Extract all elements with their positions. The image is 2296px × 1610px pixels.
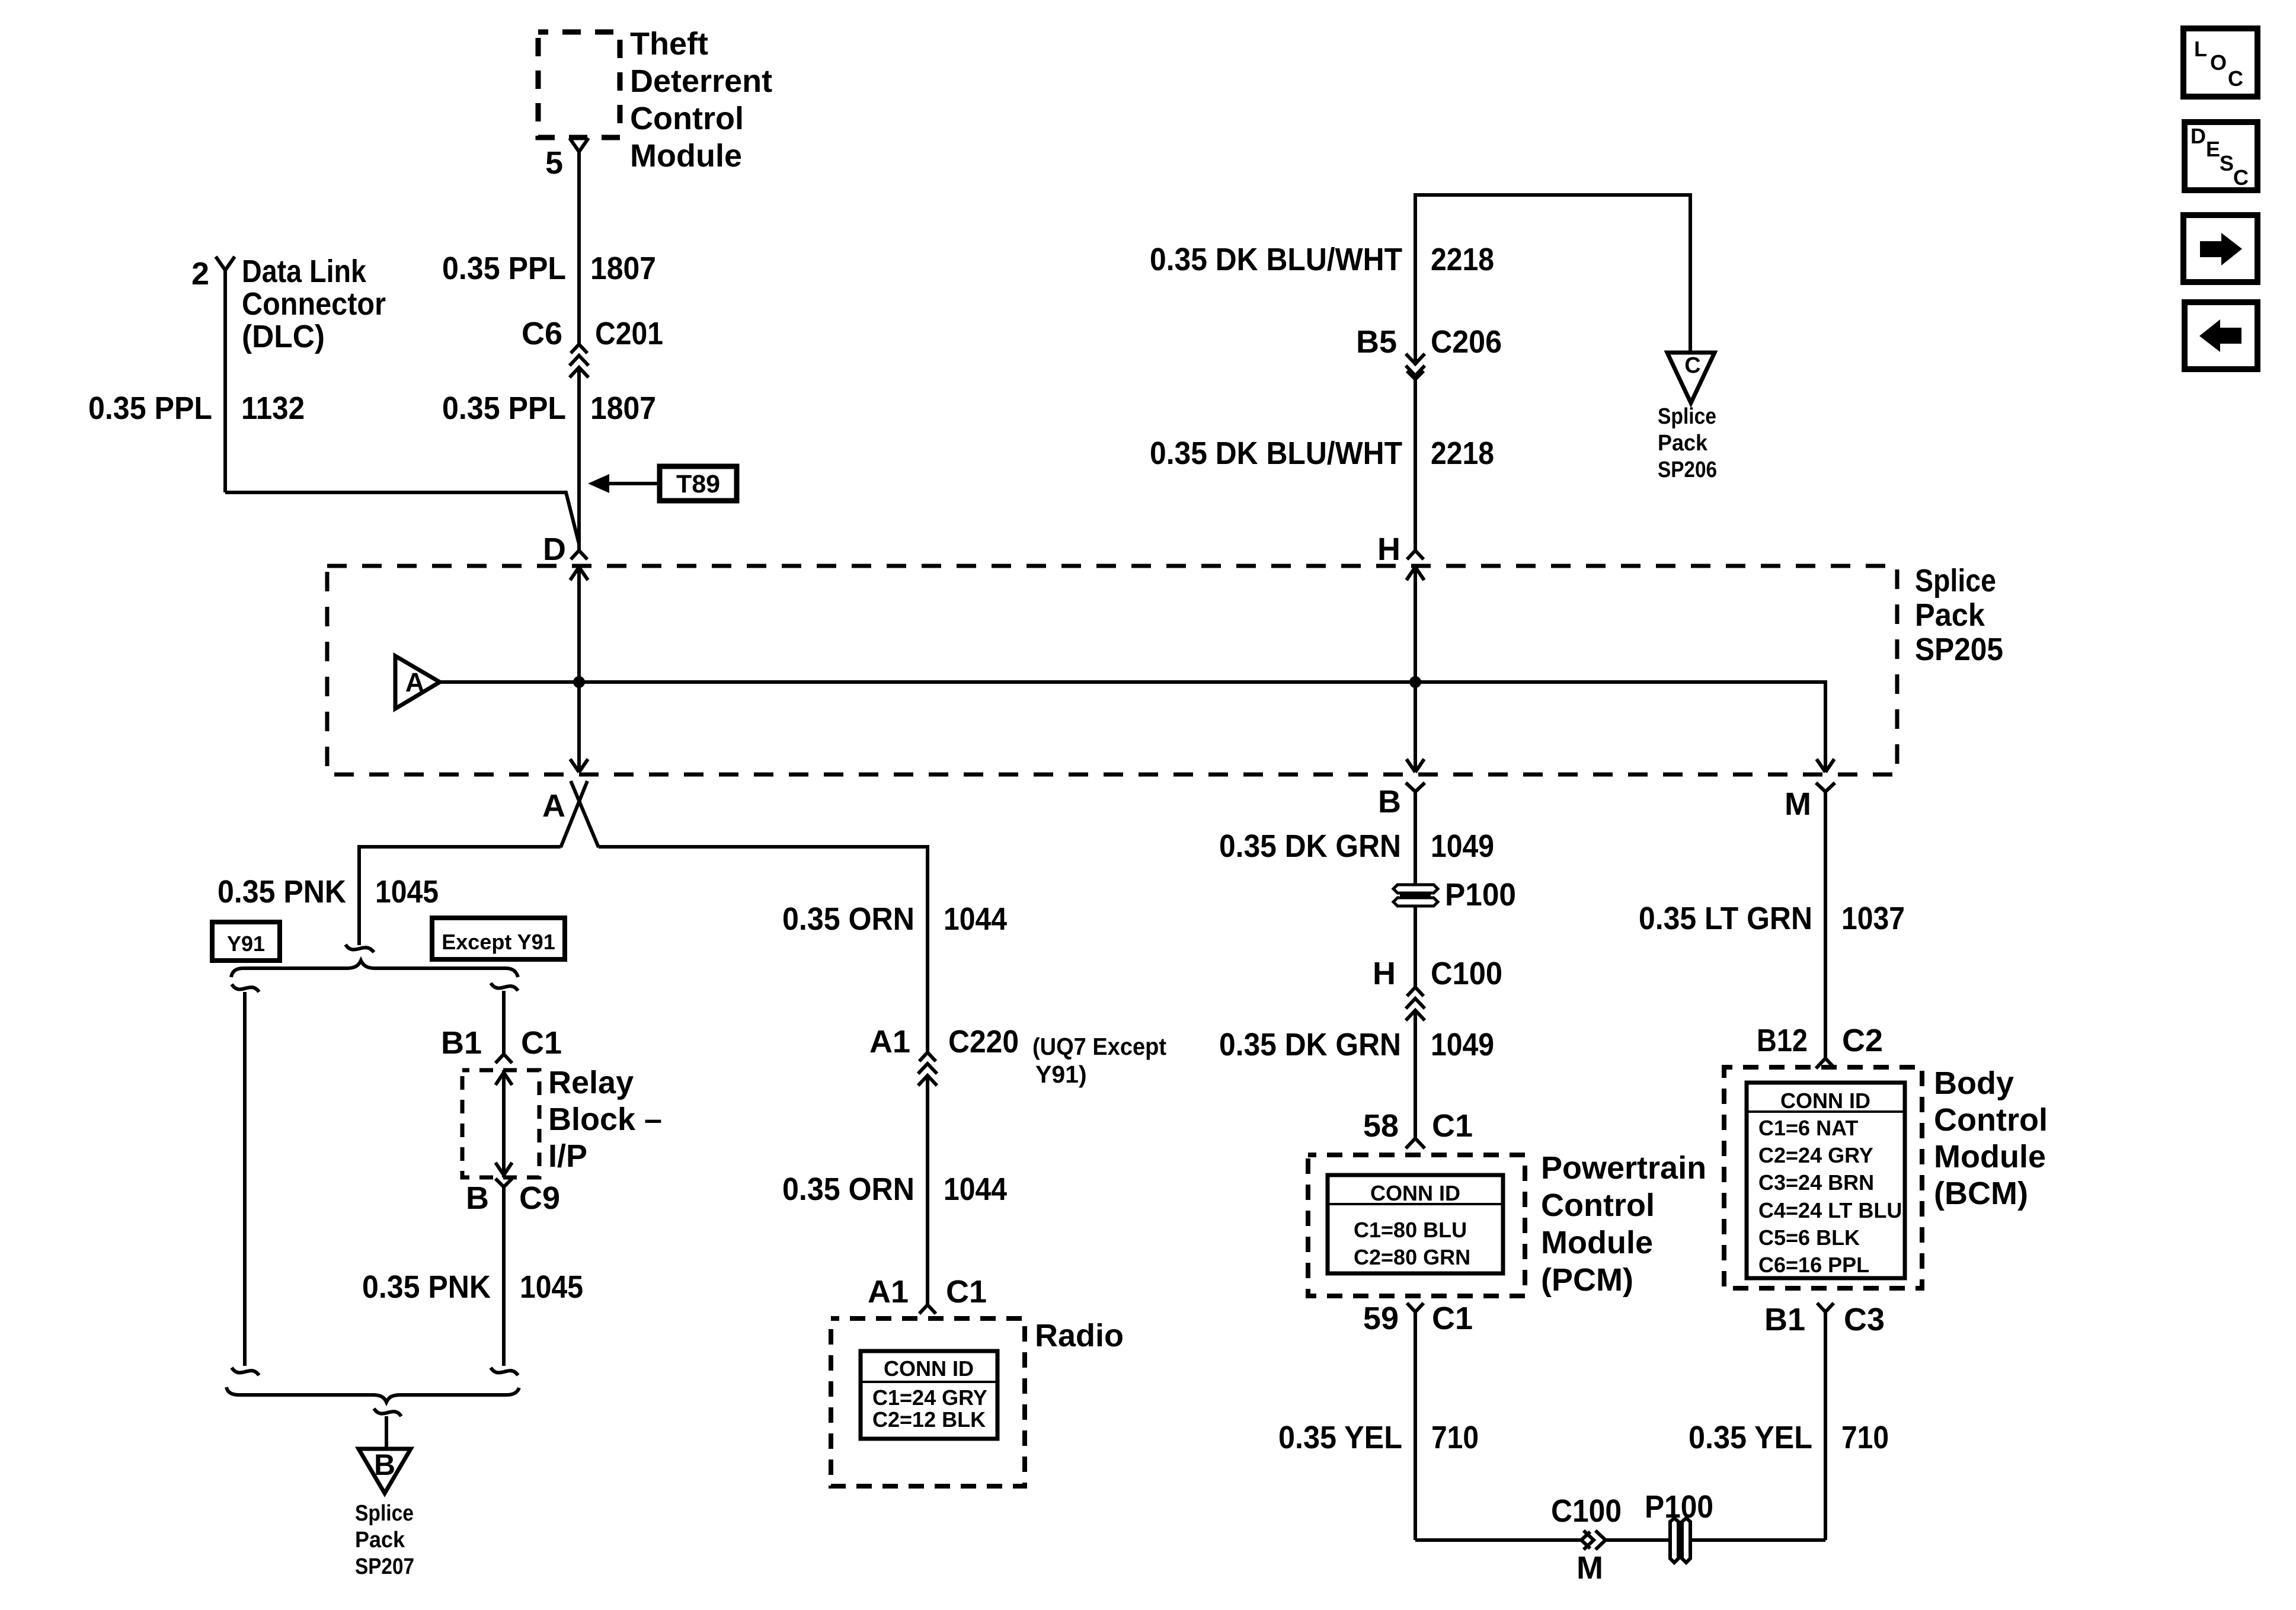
svg-text:S: S xyxy=(2220,151,2234,175)
svg-text:(PCM): (PCM) xyxy=(1541,1262,1633,1298)
merge underbrace xyxy=(226,1387,519,1402)
svg-text:C5=6 BLK: C5=6 BLK xyxy=(1758,1225,1860,1250)
node M label xyxy=(1785,786,1811,822)
svg-text:0.35 YEL: 0.35 YEL xyxy=(1689,1420,1812,1455)
splice pack SP206 triangle C xyxy=(1667,353,1715,403)
svg-text:C201: C201 xyxy=(595,316,663,351)
radio pins A1 C1 xyxy=(868,1274,987,1310)
connector C201 pin C6 labels xyxy=(522,316,663,351)
svg-text:Splice: Splice xyxy=(1658,404,1716,429)
svg-text:2218: 2218 xyxy=(1431,436,1494,471)
svg-text:C2: C2 xyxy=(1842,1023,1883,1058)
svg-text:Block –: Block – xyxy=(548,1102,662,1137)
wire label 0.35 DK GRN 1049 (upper) xyxy=(1219,828,1494,864)
svg-text:Pack: Pack xyxy=(1658,431,1708,456)
svg-text:E: E xyxy=(2206,137,2220,161)
svg-text:C4=24 LT BLU: C4=24 LT BLU xyxy=(1758,1198,1902,1222)
svg-text:C1=6 NAT: C1=6 NAT xyxy=(1758,1116,1858,1140)
svg-text:0.35 ORN: 0.35 ORN xyxy=(782,901,914,937)
svg-text:Body: Body xyxy=(1934,1065,2014,1101)
svg-text:2218: 2218 xyxy=(1431,242,1494,277)
connector C206 pin B5 labels xyxy=(1356,324,1502,360)
svg-text:Relay: Relay xyxy=(548,1065,634,1100)
wire Y91 branch xyxy=(243,992,247,1366)
svg-text:1807: 1807 xyxy=(590,251,656,286)
wire label 0.35 PNK 1045 (lower) xyxy=(362,1269,583,1305)
wire Except Y91 branch to relay block xyxy=(502,991,506,1054)
svg-text:59: 59 xyxy=(1363,1301,1399,1336)
svg-text:L: L xyxy=(2194,37,2207,61)
BCM pins B1 C3 xyxy=(1764,1302,1885,1337)
svg-text:Splice: Splice xyxy=(1915,563,1996,598)
svg-text:1049: 1049 xyxy=(1431,828,1494,864)
svg-text:Splice: Splice xyxy=(355,1501,414,1526)
wire C206 to splice pack H xyxy=(1414,379,1417,550)
wire DLC horizontal run to node D xyxy=(225,492,579,544)
wire TDCM pin5 to C201 xyxy=(577,152,581,344)
svg-text:B1: B1 xyxy=(441,1025,482,1061)
wire M to BCM xyxy=(1824,792,1827,1058)
svg-text:CONN ID: CONN ID xyxy=(1370,1181,1460,1205)
connector Y at TDCM pin 5 xyxy=(570,138,589,152)
wire fork left branch to PNK xyxy=(359,847,561,945)
node M exit connector Y xyxy=(1816,783,1835,792)
PCM pins 59 C1 xyxy=(1363,1301,1473,1336)
connector C100 pin H labels xyxy=(1373,956,1502,991)
connector C220 pin A1 labels xyxy=(869,1024,1019,1060)
BCM entry connector chevron xyxy=(1816,1058,1835,1068)
svg-text:O: O xyxy=(2210,50,2227,75)
svg-text:SP207: SP207 xyxy=(355,1554,414,1579)
grommet P100 bottom xyxy=(1645,1489,1713,1563)
label Data Link Connector (DLC) xyxy=(242,254,386,354)
pin 2 label xyxy=(191,256,209,292)
svg-text:Control: Control xyxy=(1934,1102,2048,1138)
wire label 0.35 DK GRN 1049 (lower) xyxy=(1219,1027,1494,1062)
splice pack SP207 triangle B xyxy=(359,1448,411,1493)
label Powertrain Control Module (PCM) xyxy=(1541,1150,1706,1298)
connector C220 symbol (double chevron) xyxy=(918,1052,937,1086)
wire bottom run middle xyxy=(1606,1538,1670,1542)
svg-text:710: 710 xyxy=(1431,1420,1479,1455)
label Splice Pack SP207 xyxy=(355,1501,414,1579)
svg-text:Module: Module xyxy=(1934,1139,2046,1174)
svg-text:B1: B1 xyxy=(1764,1302,1805,1337)
splice source triangle A xyxy=(395,656,440,709)
connector C206 symbol (double chevron down) xyxy=(1406,354,1425,379)
wire C100 to PCM xyxy=(1414,1010,1417,1138)
svg-text:1045: 1045 xyxy=(375,874,439,910)
svg-text:(UQ7 Except: (UQ7 Except xyxy=(1032,1033,1166,1060)
svg-text:Y91): Y91) xyxy=(1035,1061,1087,1088)
svg-text:B5: B5 xyxy=(1356,324,1397,360)
icon DESC xyxy=(2185,122,2257,190)
svg-text:D: D xyxy=(2191,124,2206,148)
svg-text:1037: 1037 xyxy=(1841,901,1905,936)
label Splice Pack SP206 xyxy=(1658,404,1717,482)
svg-text:D: D xyxy=(543,532,566,567)
svg-text:0.35 PNK: 0.35 PNK xyxy=(362,1269,491,1305)
svg-text:A: A xyxy=(542,788,565,824)
BCM pins B12 C2 xyxy=(1757,1023,1883,1058)
node B exit connector Y xyxy=(1406,783,1425,792)
wire PCM 59 down xyxy=(1414,1312,1417,1540)
SP205 exit arrow at M xyxy=(1817,759,1834,772)
splice bus wire xyxy=(440,682,1825,772)
label Theft Deterrent Control Module xyxy=(630,26,772,174)
svg-text:Connector: Connector xyxy=(242,286,386,322)
svg-text:C1: C1 xyxy=(1432,1108,1473,1144)
wire DLC pin 2 down xyxy=(223,270,227,492)
svg-text:1044: 1044 xyxy=(944,1172,1007,1207)
svg-text:B: B xyxy=(374,1448,395,1481)
svg-text:C100: C100 xyxy=(1551,1493,1622,1529)
svg-text:Control: Control xyxy=(630,101,744,136)
svg-text:0.35 ORN: 0.35 ORN xyxy=(782,1172,914,1207)
svg-text:SP205: SP205 xyxy=(1915,632,2003,667)
PCM CONN ID table xyxy=(1328,1175,1503,1273)
wire label 0.35 DK BLU/WHT 2218 (upper) xyxy=(1150,242,1494,277)
T89 tag box xyxy=(660,466,737,501)
connector C201 symbol (double chevron) xyxy=(570,344,589,377)
icon arrow right xyxy=(2183,215,2257,282)
icon arrow left xyxy=(2185,302,2257,369)
node H label xyxy=(1377,532,1400,567)
connector C100 bottom symbol (double chevron right) xyxy=(1581,1531,1606,1550)
label Body Control Module (BCM) xyxy=(1934,1065,2048,1211)
radio (dashed outline) xyxy=(831,1318,1025,1486)
svg-text:M: M xyxy=(1785,786,1811,822)
split overbrace xyxy=(231,961,518,977)
svg-text:0.35 LT GRN: 0.35 LT GRN xyxy=(1639,901,1812,936)
SP205 internal wire at H-B xyxy=(1414,567,1417,772)
BCM CONN ID table xyxy=(1747,1083,1905,1278)
svg-text:58: 58 xyxy=(1363,1108,1399,1144)
svg-text:C3: C3 xyxy=(1844,1302,1885,1337)
connector C100 bottom labels xyxy=(1551,1493,1622,1586)
svg-text:C220: C220 xyxy=(948,1024,1019,1060)
svg-text:C3=24 BRN: C3=24 BRN xyxy=(1758,1170,1874,1195)
Except Y91 branch squiggle top xyxy=(491,983,518,991)
PCM exit connector Y xyxy=(1407,1303,1424,1312)
svg-text:1132: 1132 xyxy=(241,391,305,426)
wire BCM B1 down xyxy=(1824,1312,1827,1540)
svg-text:H: H xyxy=(1377,532,1400,567)
wire C201 to splice pack D xyxy=(577,367,581,550)
svg-text:C1=80 BLU: C1=80 BLU xyxy=(1354,1218,1467,1242)
svg-text:A1: A1 xyxy=(868,1274,909,1310)
tag box Y91 xyxy=(212,922,280,961)
svg-text:0.35 PPL: 0.35 PPL xyxy=(442,251,566,286)
wire label 0.35 ORN 1044 (upper) xyxy=(782,901,1007,937)
wire label 0.35 PPL 1132 xyxy=(88,391,305,426)
wire label 0.35 PPL 1807 (upper) xyxy=(442,251,656,286)
svg-text:0.35 PNK: 0.35 PNK xyxy=(218,874,346,910)
svg-text:0.35 DK BLU/WHT: 0.35 DK BLU/WHT xyxy=(1150,436,1402,471)
svg-text:C: C xyxy=(1684,353,1700,378)
node B label xyxy=(1378,784,1401,820)
BCM exit connector Y xyxy=(1817,1303,1834,1312)
svg-text:P100: P100 xyxy=(1645,1489,1713,1525)
svg-text:1049: 1049 xyxy=(1431,1027,1494,1062)
node H connector V xyxy=(1407,550,1424,559)
svg-text:1807: 1807 xyxy=(590,391,656,426)
svg-text:0.35 DK BLU/WHT: 0.35 DK BLU/WHT xyxy=(1150,242,1402,277)
svg-text:0.35 YEL: 0.35 YEL xyxy=(1278,1420,1402,1455)
svg-text:T89: T89 xyxy=(676,470,720,498)
svg-text:Pack: Pack xyxy=(1915,597,1985,633)
SP205 exit arrow at B xyxy=(1406,759,1424,772)
svg-text:A: A xyxy=(405,667,425,697)
SP205 entry arrow at H xyxy=(1406,567,1424,580)
svg-text:CONN ID: CONN ID xyxy=(1780,1089,1870,1113)
svg-text:Deterrent: Deterrent xyxy=(630,63,772,99)
wire B to P100 xyxy=(1414,792,1417,886)
svg-text:0.35 PPL: 0.35 PPL xyxy=(442,391,566,426)
relay block internal arrow wire xyxy=(495,1070,512,1177)
svg-text:C2=24 GRY: C2=24 GRY xyxy=(1758,1143,1873,1167)
svg-text:0.35 DK GRN: 0.35 DK GRN xyxy=(1219,1027,1401,1062)
grommet P100 xyxy=(1393,877,1516,913)
node D connector V xyxy=(571,544,587,559)
svg-text:M: M xyxy=(1576,1550,1603,1586)
pin 5 label xyxy=(545,145,563,181)
svg-text:2: 2 xyxy=(191,256,209,292)
wire bottom run right xyxy=(1690,1538,1825,1542)
relay block I/P (dashed outline) xyxy=(462,1070,539,1177)
radio entry connector V xyxy=(919,1305,936,1314)
svg-text:B12: B12 xyxy=(1757,1023,1808,1058)
wire bottom run left xyxy=(1415,1538,1581,1542)
icon LOC xyxy=(2183,28,2257,97)
SP205 exit arrow at A xyxy=(570,759,588,772)
svg-text:Pack: Pack xyxy=(355,1528,405,1553)
wire fork right branch to ORN xyxy=(599,847,928,1052)
svg-text:C1=24 GRY: C1=24 GRY xyxy=(872,1385,987,1410)
svg-text:0.35 PPL: 0.35 PPL xyxy=(88,391,212,426)
powertrain control module (dashed outline) xyxy=(1308,1155,1525,1296)
label Splice Pack SP205 xyxy=(1915,563,2003,667)
svg-text:Theft: Theft xyxy=(630,26,708,62)
svg-text:C2=80 GRN: C2=80 GRN xyxy=(1354,1245,1470,1269)
svg-text:B: B xyxy=(1378,784,1401,820)
node D label xyxy=(543,532,566,567)
wire label 0.35 LT GRN 1037 xyxy=(1639,901,1905,936)
svg-text:5: 5 xyxy=(545,145,563,181)
label Radio xyxy=(1035,1318,1124,1353)
svg-text:C6: C6 xyxy=(522,316,562,351)
relay block entry connector V xyxy=(495,1054,512,1063)
svg-text:Module: Module xyxy=(1541,1225,1653,1260)
Y91 branch squiggle bottom xyxy=(232,1368,259,1375)
wire label 0.35 ORN 1044 (lower) xyxy=(782,1172,1007,1207)
node A fork connector X xyxy=(561,781,599,847)
svg-text:Except Y91: Except Y91 xyxy=(442,930,555,954)
SP205 entry arrow at D xyxy=(570,567,588,580)
svg-text:C6=16 PPL: C6=16 PPL xyxy=(1758,1253,1869,1277)
T89 arrow xyxy=(588,474,660,493)
SP205 internal wire at D-A xyxy=(577,567,581,772)
svg-text:Radio: Radio xyxy=(1035,1318,1124,1353)
junction dot at D-A leg xyxy=(573,676,585,688)
relay block pins B1 C1 xyxy=(441,1025,562,1061)
radio CONN ID table xyxy=(861,1351,997,1439)
svg-text:710: 710 xyxy=(1841,1420,1889,1455)
tag box Except Y91 xyxy=(432,918,565,959)
wire label 0.35 DK BLU/WHT 2218 (lower) xyxy=(1150,436,1494,471)
svg-text:1044: 1044 xyxy=(944,901,1007,937)
svg-text:C206: C206 xyxy=(1431,324,1502,360)
svg-text:H: H xyxy=(1373,956,1396,991)
svg-text:Module: Module xyxy=(630,138,742,174)
svg-text:B: B xyxy=(466,1180,489,1216)
junction dot at H-B leg xyxy=(1409,676,1421,688)
svg-text:I/P: I/P xyxy=(548,1138,587,1174)
note (UQ7 Except Y91) xyxy=(1032,1033,1166,1088)
wire DK BLU/WHT top loop xyxy=(1415,195,1690,364)
svg-text:CONN ID: CONN ID xyxy=(884,1356,974,1381)
svg-text:P100: P100 xyxy=(1445,877,1516,913)
connector C100 symbol (double chevron) xyxy=(1406,987,1425,1020)
wire label 0.35 PPL 1807 (lower) xyxy=(442,391,656,426)
svg-text:0.35 DK GRN: 0.35 DK GRN xyxy=(1219,828,1401,864)
node A label xyxy=(542,788,565,824)
svg-text:C: C xyxy=(2233,165,2249,190)
svg-text:C100: C100 xyxy=(1431,956,1502,991)
svg-text:C1: C1 xyxy=(946,1274,987,1310)
merge squiggle xyxy=(374,1409,401,1416)
relay block exit connector Y xyxy=(495,1179,512,1187)
svg-text:C: C xyxy=(2228,66,2243,91)
svg-text:Data Link: Data Link xyxy=(242,254,367,289)
break squiggle on PNK wire xyxy=(346,945,374,952)
svg-text:SP206: SP206 xyxy=(1658,457,1717,482)
svg-text:A1: A1 xyxy=(869,1024,910,1060)
svg-text:(BCM): (BCM) xyxy=(1934,1176,2028,1211)
PCM pins 58 C1 xyxy=(1363,1108,1473,1144)
wire relay block to SP207 xyxy=(502,1187,506,1366)
splice pack SP205 (dashed outline) xyxy=(327,566,1897,774)
wire label 0.35 PNK 1045 (upper) xyxy=(218,874,439,910)
wire label 0.35 YEL 710 (left) xyxy=(1278,1420,1479,1455)
wire merge to SP207 triangle xyxy=(385,1416,388,1449)
svg-text:Control: Control xyxy=(1541,1188,1655,1223)
relay block pins B C9 xyxy=(466,1180,560,1216)
Except Y91 branch squiggle bottom xyxy=(491,1368,518,1375)
wire C220 to radio xyxy=(926,1076,929,1305)
wire label 0.35 YEL 710 (right) xyxy=(1689,1420,1889,1455)
body control module (dashed outline) xyxy=(1724,1067,1922,1288)
theft deterrent control module (dashed outline) xyxy=(538,32,620,137)
PCM entry connector chevron xyxy=(1406,1138,1425,1148)
svg-text:(DLC): (DLC) xyxy=(242,319,325,354)
connector Y at DLC pin 2 xyxy=(216,257,235,270)
label Relay Block - I/P xyxy=(548,1065,662,1174)
svg-text:1045: 1045 xyxy=(520,1269,583,1305)
wire P100 to C100 xyxy=(1414,905,1417,987)
svg-text:C1: C1 xyxy=(1432,1301,1473,1336)
Y91 branch squiggle top xyxy=(232,984,259,992)
svg-text:C2=12 BLK: C2=12 BLK xyxy=(872,1407,986,1432)
svg-text:Y91: Y91 xyxy=(227,932,265,956)
svg-text:C1: C1 xyxy=(521,1025,562,1061)
svg-text:C9: C9 xyxy=(519,1180,560,1216)
svg-text:Powertrain: Powertrain xyxy=(1541,1150,1706,1186)
